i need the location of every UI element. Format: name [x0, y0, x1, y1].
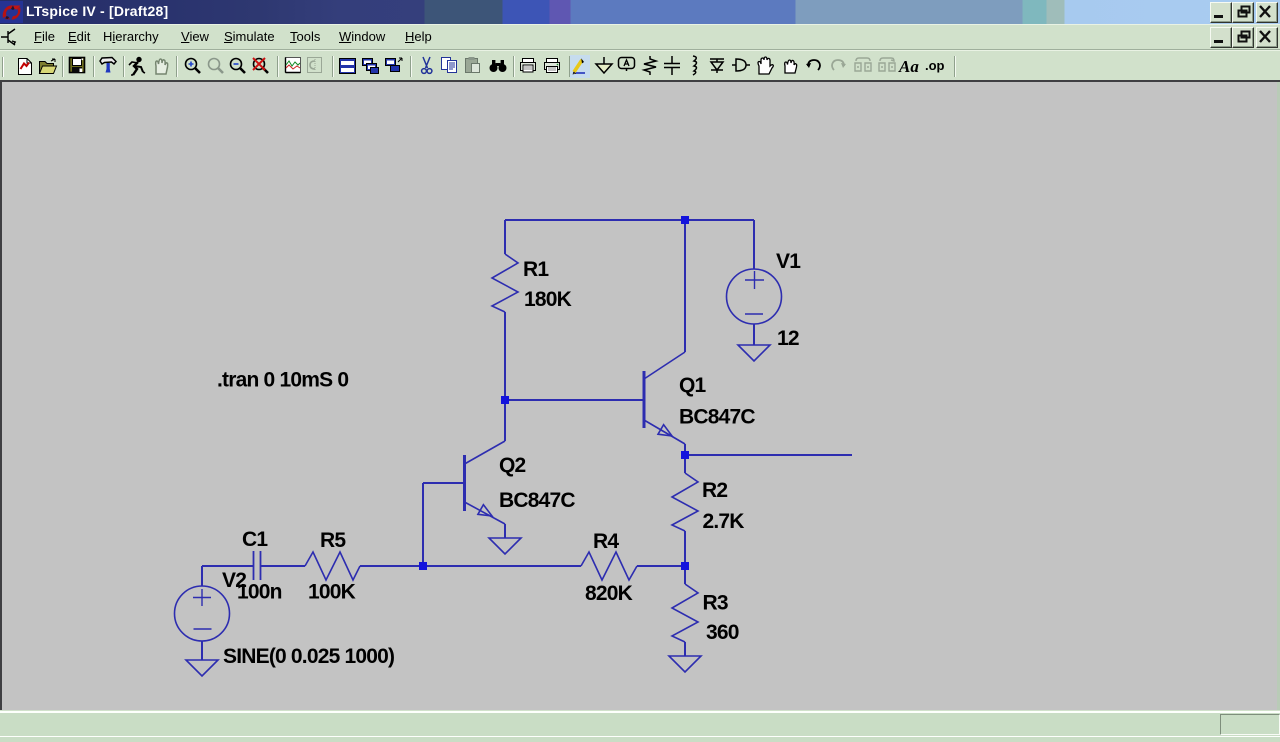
icon net label: [619, 58, 635, 72]
icon paste (disabled): [466, 57, 480, 73]
node junction squares: [419, 216, 689, 570]
svg-text:R4: R4: [593, 530, 619, 553]
wire Q2 base vertical: [422, 483, 424, 566]
wire R1 top lead: [504, 220, 506, 254]
svg-text:Aa: Aa: [898, 57, 919, 76]
node junction emitter: [681, 451, 689, 459]
icon plot settings (disabled): [308, 58, 322, 73]
voltage source V2: [175, 586, 230, 641]
wire R2 bottom: [684, 531, 686, 566]
resistor R1: [492, 254, 518, 312]
wire V2 bottom: [201, 641, 203, 660]
svg-text:R2: R2: [702, 479, 727, 502]
icon cascade windows: [363, 59, 379, 74]
icon ground symbol: [596, 57, 612, 73]
icon new schematic: [19, 59, 32, 75]
icon zoom extents (disabled): [209, 59, 224, 74]
wire R2 top lead: [684, 455, 686, 473]
wire Q2 emitter: [504, 524, 506, 538]
wire Q1 collector vertical: [684, 220, 686, 352]
node junction bottom: [419, 562, 427, 570]
wire V2 to C1: [202, 565, 253, 567]
ground (V2): [186, 660, 218, 676]
svg-text:C1: C1: [242, 528, 268, 551]
title bar: [0, 0, 1280, 24]
wire C1 to R5: [261, 565, 305, 567]
canvas: [0, 80, 1280, 82]
icon cascade restore: [386, 58, 403, 72]
resistor R5: [305, 552, 360, 580]
svg-text:BC847C: BC847C: [499, 489, 575, 512]
svg-text:.op: .op: [925, 58, 945, 73]
icon rotate (disabled): [879, 58, 895, 71]
svg-text:820K: 820K: [585, 582, 633, 605]
icon mirror (disabled): [855, 58, 871, 71]
ground (R3): [669, 656, 701, 672]
capacitor C1: [254, 551, 261, 580]
menu bar: [0, 24, 1280, 50]
status bar: [0, 711, 1280, 742]
svg-text:SINE(0 0.025 1000): SINE(0 0.025 1000): [223, 645, 394, 668]
wire R4 right lead: [637, 565, 685, 567]
icon capacitor: [664, 56, 680, 75]
icon save: [70, 58, 85, 73]
node junction R2R3R4: [681, 562, 689, 570]
icon zoom out: [231, 59, 246, 74]
wire bottom rail: [360, 565, 581, 567]
wire base node to Q1: [505, 399, 643, 401]
icon tile windows: [340, 59, 356, 74]
icon component: [732, 59, 750, 71]
icon move hand: [758, 57, 773, 74]
wire V1 bottom: [753, 324, 755, 345]
resistor R2: [672, 473, 698, 531]
transistor Q1: [644, 352, 685, 444]
window buttons (title row): [1210, 2, 1232, 23]
wire emitter node right: [685, 454, 852, 456]
svg-text:R3: R3: [703, 592, 728, 615]
svg-text:R1: R1: [523, 258, 549, 281]
wire Q2 base horizontal: [423, 482, 463, 484]
icon run: [129, 57, 145, 75]
resistor R4: [581, 552, 637, 580]
icon print preview: [521, 59, 536, 73]
icon wire mode pencil: [570, 55, 590, 78]
wire R3 bottom: [684, 642, 686, 656]
icon control panel hammer: [100, 58, 116, 73]
svg-text:R5: R5: [320, 529, 346, 552]
node junction top: [681, 216, 689, 224]
svg-text:BC847C: BC847C: [679, 406, 755, 429]
toolbar grip: [3, 57, 5, 77]
icon undo: [806, 60, 820, 70]
window buttons (menu row): [1210, 27, 1232, 48]
icon open: [40, 59, 57, 74]
menubar transistor icon: [1, 26, 23, 48]
svg-text:2.7K: 2.7K: [703, 510, 745, 533]
svg-text:V1: V1: [776, 250, 801, 273]
ground (Q2): [489, 538, 521, 554]
icon find: [490, 60, 507, 72]
wire R3 top lead: [684, 566, 686, 584]
voltage source V1: [727, 269, 782, 324]
wire Q1 emitter: [684, 444, 686, 455]
resistor R3: [672, 584, 698, 642]
icon halt hand (disabled): [156, 59, 168, 74]
node junction base: [501, 396, 509, 404]
LT logo: [0, 1, 24, 24]
icon cut: [422, 57, 432, 73]
svg-text:360: 360: [706, 621, 739, 644]
svg-text:V2: V2: [222, 569, 246, 592]
wire top rail: [505, 219, 754, 221]
icon drag hand: [785, 60, 797, 73]
svg-text:.tran 0 10mS 0: .tran 0 10mS 0: [217, 369, 348, 392]
icon print: [545, 59, 560, 73]
svg-text:Q1: Q1: [679, 374, 707, 397]
toolbar: [0, 49, 1280, 81]
ground (V1): [738, 345, 770, 361]
icon undock zoom: [253, 58, 268, 73]
wire V1 top: [753, 220, 755, 269]
svg-text:Q2: Q2: [499, 454, 526, 477]
svg-text:180K: 180K: [524, 288, 572, 311]
svg-text:100K: 100K: [308, 581, 356, 604]
icon copy: [442, 58, 457, 73]
transistor Q2: [465, 441, 506, 524]
wire V2 top: [201, 566, 203, 586]
icon inductor: [693, 56, 697, 75]
icon redo (disabled): [832, 60, 846, 70]
wire Q2 collector: [504, 400, 506, 441]
icon waveform: [286, 58, 301, 73]
icon resistor: [644, 56, 656, 75]
icon zoom in: [186, 59, 201, 74]
icon diode: [710, 59, 724, 73]
wire R1 bottom to node: [504, 312, 506, 400]
svg-text:12: 12: [777, 327, 799, 350]
